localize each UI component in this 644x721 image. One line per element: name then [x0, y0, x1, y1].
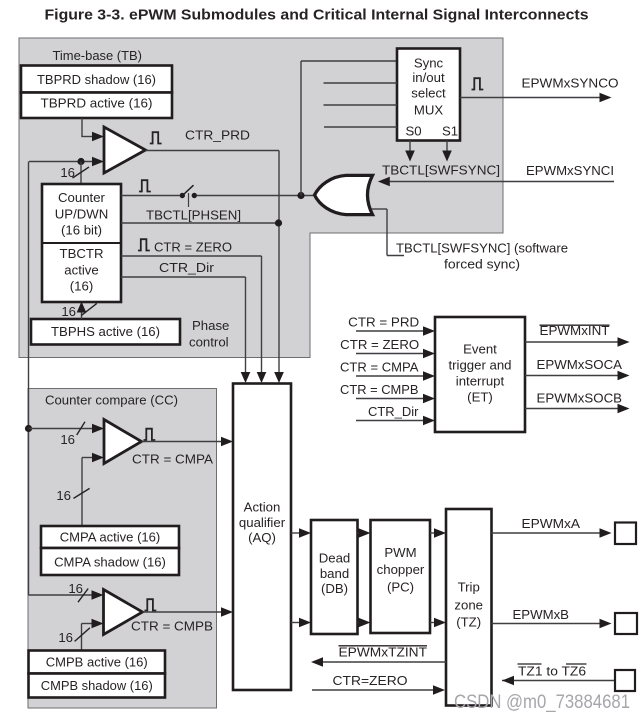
- wire TBPRD to period comparator: [81, 118, 83, 137]
- svg-text:select: select: [411, 86, 446, 101]
- svg-text:16: 16: [56, 488, 71, 503]
- wire aq to dead band lower: [291, 622, 300, 624]
- svg-text:Action: Action: [244, 500, 281, 515]
- svg-text:Dead: Dead: [319, 551, 351, 566]
- pad EPWMxB: [615, 613, 637, 634]
- svg-text:EPWMxSYNCI: EPWMxSYNCI: [526, 163, 614, 178]
- clock pulse CTR=ZERO: [138, 239, 150, 250]
- register TBPRD shadow: [21, 66, 172, 93]
- clock pulse CTR=CMPA: [144, 429, 156, 440]
- register CMPB active: [29, 651, 166, 674]
- counter-compare submodule shaded region: [28, 389, 217, 709]
- comparator period triangle: [104, 127, 146, 173]
- wire EPWMxB output: [492, 623, 601, 625]
- svg-text:16: 16: [61, 304, 76, 319]
- svg-text:(AQ): (AQ): [248, 530, 276, 545]
- svg-text:EPWMxSOCB: EPWMxSOCB: [537, 391, 623, 406]
- svg-text:MUX: MUX: [414, 103, 444, 118]
- register CMPA shadow: [41, 548, 179, 575]
- wire junction down to counter: [80, 162, 82, 185]
- svg-text:CTR_Dir: CTR_Dir: [159, 260, 215, 275]
- svg-text:interrupt: interrupt: [456, 374, 505, 389]
- wire TBCTR to cmpb comparator: [29, 594, 96, 596]
- node CTR junction: [275, 219, 282, 226]
- svg-text:EPWMxA: EPWMxA: [522, 516, 581, 531]
- svg-text:CTR = CMPB: CTR = CMPB: [131, 619, 213, 634]
- wire EPWMxTZINT output: [322, 661, 446, 663]
- svg-text:EPWMxSOCA: EPWMxSOCA: [537, 357, 623, 372]
- mux sync in/out select: [397, 49, 460, 141]
- svg-text:16: 16: [60, 432, 75, 447]
- wire mux input stub 2: [324, 82, 398, 84]
- svg-text:CSDN @m0_73884681: CSDN @m0_73884681: [454, 692, 630, 713]
- svg-text:Trip: Trip: [458, 580, 480, 595]
- wire CTR=ZERO into trip zone: [312, 689, 434, 691]
- svg-text:CMPA shadow (16): CMPA shadow (16): [54, 555, 166, 570]
- svg-text:UP/DWN: UP/DWN: [55, 207, 108, 222]
- wire cmpb comparator to action qualifier: [143, 611, 223, 613]
- svg-text:(16): (16): [70, 279, 93, 294]
- wire TBPHS to counter: [81, 310, 83, 319]
- trip zone block TZ: [446, 509, 492, 706]
- register CMPB shadow: [29, 674, 166, 698]
- node TBCTR bus junction cc: [25, 425, 32, 432]
- svg-text:CTR_PRD: CTR_PRD: [185, 128, 250, 143]
- clock pulse EPWMxSYNCO: [472, 78, 484, 89]
- svg-text:qualifier: qualifier: [239, 515, 286, 530]
- svg-text:TBCTL[SWFSYNC] (software: TBCTL[SWFSYNC] (software: [396, 241, 568, 256]
- svg-text:(PC): (PC): [387, 580, 414, 595]
- comparator cmpb triangle: [104, 590, 143, 635]
- register TBPHS active: [31, 319, 180, 345]
- svg-text:Event: Event: [463, 342, 497, 357]
- svg-text:TBCTR: TBCTR: [60, 246, 104, 261]
- node junction TBCTR tap: [77, 158, 84, 165]
- svg-text:CTR=ZERO: CTR=ZERO: [333, 673, 408, 688]
- wire counter clock to phase switch: [121, 195, 180, 197]
- wire software forced sync to or-gate: [372, 208, 388, 210]
- svg-text:Counter: Counter: [58, 190, 106, 205]
- svg-text:CTR = ZERO: CTR = ZERO: [340, 337, 419, 352]
- wire et input CTR=ZERO: [356, 353, 424, 355]
- wire EPWMxINT output: [525, 341, 618, 343]
- pad EPWMxA: [615, 523, 636, 545]
- wire CTR_Dir to action qualifier: [121, 276, 246, 278]
- pwm chopper block PC: [371, 520, 431, 633]
- wire mux select S0 down: [409, 141, 411, 153]
- wire EPWMxSYNCI input: [388, 181, 614, 183]
- comparator cmpa triangle: [104, 420, 142, 464]
- svg-text:control: control: [189, 335, 229, 350]
- svg-text:16: 16: [68, 581, 83, 596]
- wire et input CTR=PRD: [356, 330, 424, 332]
- wire mux select S1 down: [446, 141, 448, 153]
- svg-text:CMPA active (16): CMPA active (16): [60, 530, 161, 545]
- wire CMPA active to comparator: [81, 458, 83, 527]
- svg-text:zone: zone: [454, 598, 483, 613]
- wire et input CTR=CMPB: [356, 398, 424, 400]
- wire pc to trip zone upper: [430, 532, 435, 534]
- pad TZ inputs: [615, 670, 635, 691]
- counter block TBCTR: [42, 184, 121, 302]
- svg-text:active: active: [64, 263, 98, 278]
- wire CTR_PRD to action qualifier: [146, 150, 280, 152]
- svg-text:chopper: chopper: [377, 562, 425, 577]
- svg-text:S1: S1: [442, 124, 458, 139]
- svg-text:EPWMxTZINT: EPWMxTZINT: [339, 645, 428, 660]
- svg-text:16: 16: [58, 630, 73, 645]
- wire db to pwm chopper upper: [358, 532, 360, 534]
- svg-text:trigger and: trigger and: [448, 358, 511, 373]
- wire db to pwm chopper lower: [358, 622, 360, 624]
- svg-text:CTR = PRD: CTR = PRD: [348, 315, 419, 330]
- wire pc to trip zone lower: [430, 622, 435, 624]
- svg-text:TZ1 to TZ6: TZ1 to TZ6: [518, 664, 586, 679]
- register CMPA active: [41, 526, 179, 548]
- wire et input CTR=CMPA: [356, 375, 424, 377]
- svg-text:in/out: in/out: [412, 70, 445, 85]
- wire sync node up to mux input: [300, 61, 302, 196]
- switch TBCTL[PHSEN]: [180, 193, 185, 198]
- clock pulse CTR=CMPB: [145, 599, 157, 610]
- node sync junction: [297, 192, 304, 199]
- wire et input CTR_Dir: [356, 420, 424, 422]
- wire TZ1-TZ6 into trip zone: [502, 680, 615, 682]
- wire EPWMxSOCB output: [525, 408, 618, 410]
- svg-text:CTR = CMPB: CTR = CMPB: [340, 382, 419, 397]
- time-base submodule shaded region: [19, 38, 503, 358]
- svg-text:Counter compare (CC): Counter compare (CC): [45, 393, 178, 408]
- clock pulse phase sync: [139, 180, 151, 191]
- wire mux input stub 3: [324, 104, 398, 106]
- svg-text:EPWMxB: EPWMxB: [513, 607, 570, 622]
- wire mux input stub 4: [324, 126, 397, 128]
- svg-text:Figure 3-3. ePWM Submodules an: Figure 3-3. ePWM Submodules and Critical…: [45, 8, 589, 24]
- wire EPWMxA output: [492, 532, 601, 534]
- wire EPWMxSYNCO output: [460, 97, 600, 99]
- wire EPWMxSOCA output: [525, 375, 618, 377]
- event trigger and interrupt block ET: [435, 317, 525, 432]
- wire TBCTR bus vertical: [28, 162, 30, 596]
- wire CTR=ZERO to action qualifier: [121, 255, 262, 257]
- wire CMPB active to comparator: [81, 624, 83, 650]
- svg-text:CTR_Dir: CTR_Dir: [368, 404, 419, 419]
- svg-text:forced sync): forced sync): [444, 257, 520, 272]
- svg-text:S0: S0: [406, 124, 422, 139]
- or-gate sync combine: [315, 175, 373, 214]
- svg-text:Time-base (TB): Time-base (TB): [53, 48, 143, 63]
- svg-text:TBPHS active (16): TBPHS active (16): [51, 324, 160, 339]
- svg-text:PWM: PWM: [384, 545, 416, 560]
- svg-text:EPWMxSYNCO: EPWMxSYNCO: [522, 76, 619, 91]
- register TBPRD active: [21, 93, 172, 119]
- action qualifier block AQ: [233, 384, 291, 691]
- arrow CTR_PRD into action qualifier: [274, 372, 284, 383]
- clock pulse CTR_PRD: [150, 132, 162, 143]
- wire aq to dead band upper: [291, 532, 300, 534]
- svg-text:CMPB active (16): CMPB active (16): [46, 655, 148, 670]
- svg-text:CTR = ZERO: CTR = ZERO: [154, 240, 232, 255]
- svg-text:CTR = CMPA: CTR = CMPA: [132, 452, 213, 467]
- wire switch to sync node: [197, 195, 313, 197]
- svg-text:CMPB shadow (16): CMPB shadow (16): [41, 678, 153, 693]
- svg-text:band: band: [320, 566, 349, 581]
- svg-text:(DB): (DB): [321, 581, 348, 596]
- svg-text:TBPRD shadow (16): TBPRD shadow (16): [37, 72, 156, 87]
- wire counter output to CTR node: [121, 222, 279, 224]
- svg-text:(16 bit): (16 bit): [61, 223, 102, 238]
- wire cmpa comparator to action qualifier: [142, 441, 223, 443]
- wire TBCTR bus to period comparator: [29, 161, 95, 163]
- svg-text:Sync: Sync: [414, 56, 444, 71]
- svg-text:TBPRD active (16): TBPRD active (16): [41, 96, 153, 111]
- svg-text:Phase: Phase: [192, 318, 229, 333]
- svg-text:CTR = CMPA: CTR = CMPA: [340, 360, 419, 375]
- svg-text:(TZ): (TZ): [456, 615, 481, 630]
- dead band block DB: [311, 520, 358, 634]
- svg-text:TBCTL[SWFSYNC]: TBCTL[SWFSYNC]: [382, 163, 500, 178]
- svg-text:(ET): (ET): [467, 390, 493, 405]
- svg-text:TBCTL[PHSEN]: TBCTL[PHSEN]: [146, 208, 241, 223]
- wire TBCTR to cmpa comparator: [29, 428, 96, 430]
